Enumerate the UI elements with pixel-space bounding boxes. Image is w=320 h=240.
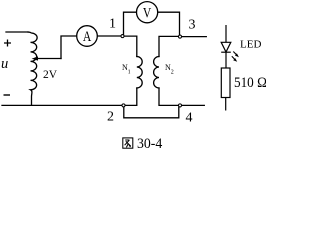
winding N1 (137, 57, 142, 89)
ammeter A (77, 26, 98, 47)
svg-text:510 Ω: 510 Ω (234, 74, 266, 91)
node 3 terminal (178, 35, 181, 38)
label N2 (165, 63, 174, 76)
caption figure character tu (123, 138, 133, 148)
svg-text:A: A (83, 28, 92, 45)
wire: winding N1 bottom to node 2 (125, 88, 137, 105)
wire: tap riser to ammeter row (61, 36, 77, 59)
svg-text:2: 2 (107, 110, 114, 125)
LED light emission arrows (232, 52, 239, 62)
winding N2 (154, 57, 159, 89)
wire: shorting link node 2 to node 4 (124, 107, 179, 118)
wire: node 3 to open end right (182, 36, 207, 38)
label N1 (122, 63, 131, 76)
label - of source (4, 94, 11, 96)
wire: bottom rail from source to node 2 (2, 104, 122, 106)
node 2 terminal (122, 104, 125, 107)
svg-text:u: u (1, 56, 8, 72)
wire: voltmeter to node 3 (158, 12, 180, 35)
wire: node 1 up to voltmeter (124, 12, 137, 34)
wire: source + terminal to coil top (6, 31, 28, 33)
svg-text:30-4: 30-4 (137, 136, 162, 153)
wire: node 1 to winding N1 top (124, 36, 137, 56)
svg-text:LED: LED (240, 38, 261, 50)
wire: winding N2 bottom to node 4 (159, 88, 178, 105)
wiper arrow tap on source winding (37, 58, 62, 60)
label + of source (4, 40, 11, 47)
LED D1 (221, 25, 231, 68)
node 1 terminal (121, 35, 124, 38)
wiper arrowhead (32, 56, 38, 60)
svg-text:2: 2 (171, 70, 174, 76)
node 4 terminal (178, 104, 181, 107)
svg-text:V: V (143, 4, 152, 21)
wire: winding N2 top to node 3 (159, 36, 178, 56)
svg-text:2V: 2V (43, 69, 58, 81)
svg-text:1: 1 (109, 17, 116, 32)
svg-text:1: 1 (128, 70, 131, 76)
svg-text:3: 3 (189, 18, 196, 33)
voltmeter V (137, 2, 158, 23)
autotransformer source winding (28, 32, 37, 105)
wire: ammeter to node 1 (97, 35, 120, 37)
resistor R1 510 ohm (221, 68, 230, 111)
wire: node 4 to open end right (182, 104, 205, 106)
svg-text:4: 4 (186, 110, 193, 125)
